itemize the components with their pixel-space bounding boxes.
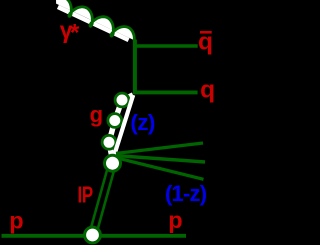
quark line q (lower horizontal) bbox=[133, 90, 198, 94]
gluon chain circle 2 bbox=[108, 114, 122, 128]
quark pair vertical line bbox=[133, 40, 137, 95]
svg-text:(z): (z) bbox=[130, 110, 155, 135]
fan line A (top remnant) bbox=[116, 143, 203, 153]
svg-text:q: q bbox=[198, 29, 213, 56]
gluon chain circle 3 bbox=[102, 135, 116, 149]
svg-text:p: p bbox=[9, 207, 23, 233]
upper vertex circle bbox=[105, 155, 121, 171]
gluon white band bbox=[112, 95, 133, 162]
svg-text:IP: IP bbox=[78, 182, 93, 208]
photon gamma* coil white band bbox=[58, 7, 129, 40]
label qbar overline bbox=[200, 31, 212, 34]
gluon chain circle 1 bbox=[115, 93, 129, 107]
pomeron double line right bbox=[89, 162, 109, 234]
svg-text:p: p bbox=[168, 207, 182, 233]
svg-text:(1-z): (1-z) bbox=[165, 181, 207, 206]
svg-text:*: * bbox=[70, 19, 80, 46]
svg-text:g: g bbox=[90, 102, 103, 127]
proton line bbox=[2, 234, 187, 238]
gluon chain white connector bbox=[109, 95, 133, 160]
quark line qbar (top horizontal) bbox=[133, 44, 198, 48]
fan line B (middle remnant) bbox=[116, 156, 205, 162]
lower vertex circle bbox=[85, 227, 101, 243]
fan line C (bottom remnant) bbox=[116, 158, 204, 180]
photon gamma* coil curve bbox=[56, 0, 135, 45]
svg-text:q: q bbox=[200, 77, 215, 104]
pomeron double line left bbox=[96, 164, 116, 236]
photon gamma* coil white fill bbox=[56, 0, 134, 40]
